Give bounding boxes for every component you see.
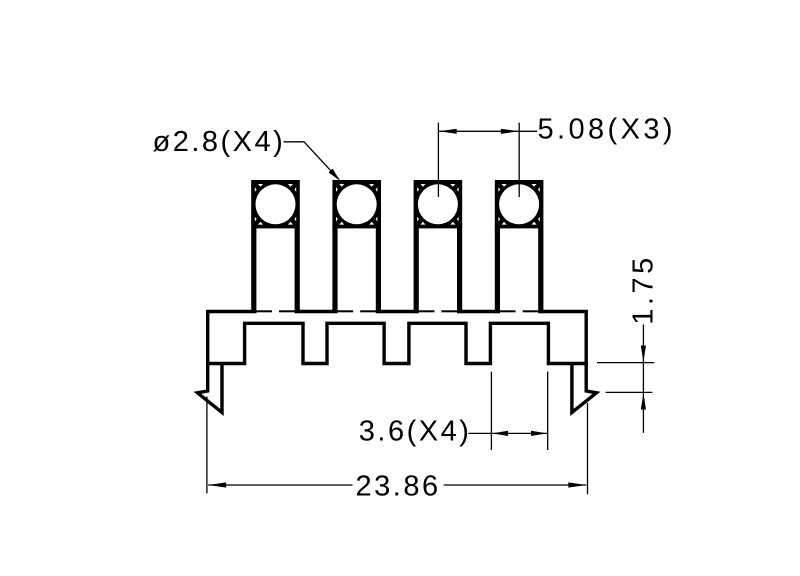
svg-text:23.86: 23.86 xyxy=(356,471,441,503)
dim 3.6 right arrowhead xyxy=(531,431,547,436)
dim 23.86 left arrowhead xyxy=(208,482,226,487)
dim 1.75 up arrowhead xyxy=(641,393,646,410)
dim 5.08 dimension line xyxy=(439,130,537,132)
pin tower T1 with hole xyxy=(251,180,300,313)
svg-text:ø2.8(X4): ø2.8(X4) xyxy=(153,126,286,158)
dim 23.86 right extension line xyxy=(587,403,589,494)
dim 5.08 left arrowhead xyxy=(439,129,457,134)
pin tower T2 with hole xyxy=(332,180,381,313)
svg-text:1.75: 1.75 xyxy=(628,254,660,324)
dim 1.75 upper extension line (body bottom level) xyxy=(597,362,654,364)
leader arrowhead pointing to tower T2 head xyxy=(329,169,340,181)
dim 5.08 right extension line (tower T4 center) xyxy=(518,123,520,197)
left barbed leg xyxy=(197,362,222,413)
dim 5.08 left extension line (tower T3 center) xyxy=(437,123,439,197)
leader line for dia 2.8 label xyxy=(284,142,340,180)
dim 3.6 dimension line and text tail xyxy=(468,432,547,434)
dim 3.6 left extension line xyxy=(490,372,492,450)
dim 3.6 right extension line xyxy=(547,372,549,450)
pin tower T3 with hole xyxy=(414,180,463,313)
pin tower T4 with hole xyxy=(495,180,544,313)
dim 1.75 dimension line xyxy=(642,325,644,433)
svg-text:3.6(X4): 3.6(X4) xyxy=(359,416,472,448)
right barbed leg xyxy=(572,362,597,413)
svg-text:5.08(X3): 5.08(X3) xyxy=(538,113,676,145)
dim 23.86 dimension line (broken for text) xyxy=(208,484,586,486)
body top edge (solid segments between pins) xyxy=(206,310,588,314)
dim 1.75 lower extension line (barb level) xyxy=(606,391,653,393)
dim 23.86 left extension line xyxy=(206,396,208,493)
housing body outline with notched bottom xyxy=(208,310,587,364)
dim 23.86 right arrowhead xyxy=(568,482,586,487)
dim 5.08 right arrowhead xyxy=(501,129,519,134)
dim 3.6 left arrowhead xyxy=(492,431,508,436)
dim 1.75 down arrowhead xyxy=(641,346,646,363)
